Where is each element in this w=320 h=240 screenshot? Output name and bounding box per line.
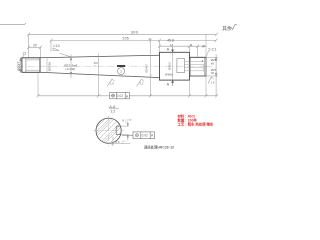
heat treatment thick mark xyxy=(117,65,125,67)
svg-text:A: A xyxy=(167,82,170,86)
dimension line third level y46.2 xyxy=(158,45,206,48)
dia dim line x71 xyxy=(70,54,72,78)
svg-text:1:2: 1:2 xyxy=(111,110,116,114)
stray leader line top-left xyxy=(0,23,26,24)
balloon 1 xyxy=(118,68,125,75)
svg-text:工艺：粗车 热处理 精车: 工艺：粗车 热处理 精车 xyxy=(178,122,214,127)
svg-text:Ø20f7: Ø20f7 xyxy=(17,62,21,71)
chamfer line left section xyxy=(25,58,27,73)
thread minor lines xyxy=(26,60,40,70)
circle centerlines xyxy=(93,115,125,146)
svg-text:A-A: A-A xyxy=(109,105,116,109)
right section outline xyxy=(189,57,206,76)
svg-text:2-C1: 2-C1 xyxy=(208,47,216,51)
section circle A-A xyxy=(96,118,121,143)
svg-text:300: 300 xyxy=(131,30,138,34)
svg-text:8: 8 xyxy=(123,119,125,123)
svg-text:调质处理HRC28~32: 调质处理HRC28~32 xyxy=(144,145,175,150)
hatching xyxy=(90,110,126,149)
svg-text:Ø24h7: Ø24h7 xyxy=(144,64,148,73)
centerline stub right xyxy=(207,65,212,67)
svg-text:(-0.040): (-0.040) xyxy=(65,67,76,71)
left diameter dimension xyxy=(20,58,22,73)
svg-text:Ø20k6: Ø20k6 xyxy=(47,62,51,71)
centerline main shaft xyxy=(17,65,213,67)
tolerance frame 1 xyxy=(110,92,130,98)
svg-text:45.8: 45.8 xyxy=(167,38,174,42)
leader for 2-C1 xyxy=(206,51,209,58)
big section outline xyxy=(160,52,190,80)
svg-text:k6: k6 xyxy=(211,61,215,65)
keyway slot front view xyxy=(177,59,185,73)
svg-text:其余: 其余 xyxy=(222,25,232,32)
svg-text:205: 205 xyxy=(122,37,129,41)
dimension line second level y40.4 xyxy=(50,39,218,57)
dim line 20 left y47.4 xyxy=(27,46,42,58)
section line A-A x172.6 xyxy=(172,52,174,80)
svg-text:8: 8 xyxy=(202,59,204,63)
keyway extension lines xyxy=(185,61,204,71)
section arrow bottom xyxy=(172,80,174,85)
right dia dimension line xyxy=(206,54,218,96)
svg-text:h6: h6 xyxy=(211,71,215,75)
bottom extension lines xyxy=(38,39,189,96)
svg-text:20: 20 xyxy=(33,44,37,48)
extension line x98 xyxy=(97,54,99,96)
keyway depth dimension bottom xyxy=(109,137,130,147)
dimension line total length y34.3 xyxy=(27,33,218,58)
svg-text:1.6: 1.6 xyxy=(110,81,114,85)
roughness symbol 3 xyxy=(208,77,214,84)
roughness symbol 2 xyxy=(137,79,144,86)
svg-text:3.2: 3.2 xyxy=(139,82,143,86)
roughness symbol 1 xyxy=(107,79,114,86)
dia dim line x49.5 xyxy=(46,58,48,73)
svg-text:0.02: 0.02 xyxy=(142,134,148,138)
tolerance frame 2 xyxy=(122,132,155,139)
svg-text:Ø45k6: Ø45k6 xyxy=(165,72,173,76)
svg-text:8: 8 xyxy=(190,43,192,47)
section arrow top xyxy=(172,47,174,52)
svg-text:A: A xyxy=(167,47,170,51)
bottom dimension line y95.8 xyxy=(37,94,219,97)
svg-text:14: 14 xyxy=(169,43,173,47)
svg-text:0.02: 0.02 xyxy=(117,94,123,98)
chamfer lines right section xyxy=(189,57,206,76)
end face extension line xyxy=(205,34,207,96)
leader balloon at left rect corner xyxy=(22,52,26,57)
cone bottom line xyxy=(40,72,160,77)
svg-text:1:10: 1:10 xyxy=(53,44,60,48)
surface finish note 其余 top-right xyxy=(222,25,237,32)
svg-text:1.6: 1.6 xyxy=(211,81,215,85)
left threaded section outline xyxy=(22,58,40,73)
keyway notch lines xyxy=(116,126,121,135)
svg-text:1: 1 xyxy=(120,70,122,74)
svg-text:4.5: 4.5 xyxy=(115,140,120,144)
taper symbol 1:10 xyxy=(53,48,73,58)
keyway width dimension right xyxy=(121,122,129,141)
cone top line xyxy=(40,55,160,58)
svg-text:Ø45r6: Ø45r6 xyxy=(168,62,172,70)
